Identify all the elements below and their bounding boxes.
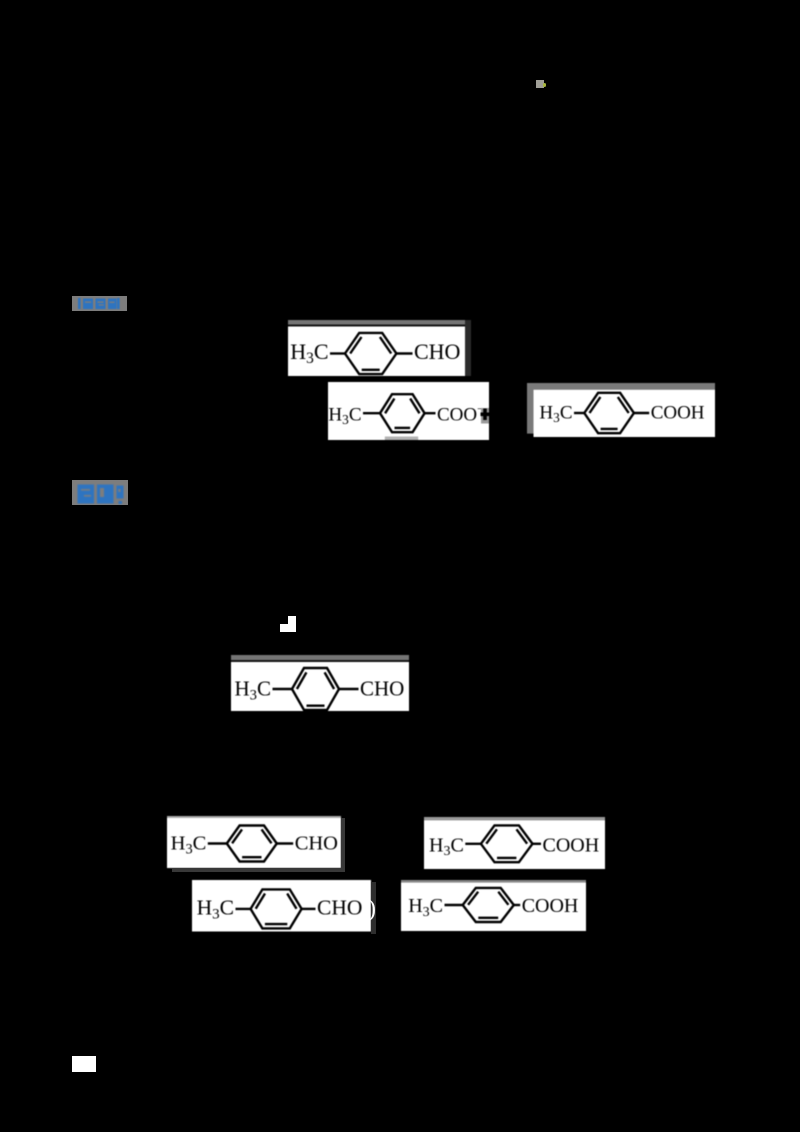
white rectangle mark bottom-left [72, 1056, 96, 1072]
structure image 2: p-methylbenzoate anion [328, 382, 489, 440]
structure image 4: p-tolualdehyde [231, 655, 409, 711]
structure image 1: p-tolualdehyde [288, 320, 471, 376]
svg-text:CHO: CHO [414, 339, 460, 364]
structure image 7: p-tolualdehyde [192, 880, 371, 932]
structure image 8: p-toluic acid [401, 880, 586, 931]
blue label box 2 [72, 480, 128, 505]
svg-text:CHO: CHO [317, 896, 362, 920]
structure image 6: p-toluic acid [424, 817, 605, 869]
white parenthesis mark [368, 897, 380, 921]
svg-text:CHO: CHO [360, 676, 404, 700]
svg-text:COOH: COOH [651, 403, 705, 424]
shadow right of structure 7 [371, 882, 376, 934]
blue label text blob 2 [72, 480, 128, 505]
blue label text blob 1 [72, 296, 127, 311]
small gray marker icon [536, 80, 544, 88]
white L-shaped mark [288, 616, 296, 633]
blue label box 1 [72, 296, 127, 311]
svg-text:COO−: COO− [437, 404, 484, 426]
structure image 3: p-toluic acid [527, 383, 715, 437]
svg-text:COOH: COOH [521, 895, 578, 917]
svg-text:COOH: COOH [543, 834, 600, 856]
svg-text:CHO: CHO [295, 833, 338, 855]
shadow below structure 5 [172, 868, 345, 872]
structure image 5: p-tolualdehyde [167, 816, 341, 868]
shadow right of structure 5 [341, 818, 345, 872]
yellow-green dot on icon [543, 83, 547, 87]
